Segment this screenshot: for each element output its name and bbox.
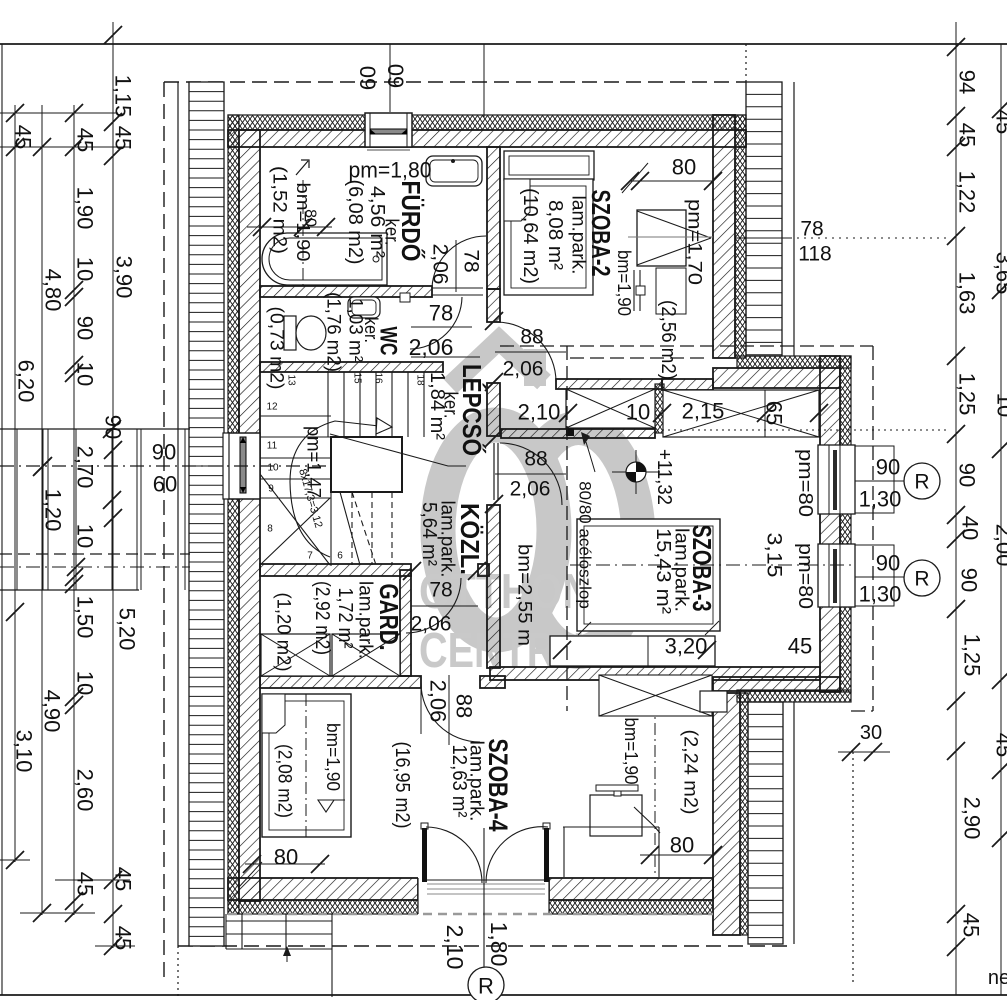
svg-text:80/80 acéloszlop: 80/80 acéloszlop xyxy=(576,481,595,609)
svg-text:15: 15 xyxy=(352,372,363,384)
svg-text:LÉPCSŐ: LÉPCSŐ xyxy=(457,364,487,456)
corridor wall upper seg xyxy=(487,289,500,322)
corridor lower door arc xyxy=(500,443,562,505)
svg-text:5,20: 5,20 xyxy=(115,608,140,651)
svg-text:(1,20 m2): (1,20 m2) xyxy=(273,593,294,672)
right window 1 annotation xyxy=(855,480,904,482)
gard door arc xyxy=(406,578,461,633)
szoba-3 top wall insulation xyxy=(737,356,851,368)
gard closet right xyxy=(332,634,400,676)
szoba-2 bottom thin wall xyxy=(556,379,662,389)
top frame line xyxy=(0,43,1007,45)
svg-text:SZOBA-2: SZOBA-2 xyxy=(586,190,616,277)
svg-text:45: 45 xyxy=(11,125,36,149)
szoba-2 80 dim xyxy=(630,180,713,182)
svg-text:4,80: 4,80 xyxy=(41,269,66,312)
közl bottom wall stub xyxy=(480,676,505,688)
svg-text:bm=2,55 m: bm=2,55 m xyxy=(514,544,535,646)
svg-text:1,03 m²: 1,03 m² xyxy=(345,298,366,362)
terrace door threshold xyxy=(427,884,545,894)
right window 2 annotation xyxy=(855,576,904,578)
terrace door opening xyxy=(418,877,549,915)
corridor closet 1 xyxy=(566,389,655,428)
svg-text:4,90: 4,90 xyxy=(40,690,65,733)
acéloszlop leader xyxy=(586,442,595,472)
svg-text:80: 80 xyxy=(672,155,696,180)
szoba-4 bed axis xyxy=(305,694,307,837)
corridor lower door leaf xyxy=(493,443,495,500)
svg-text:15,43 m²: 15,43 m² xyxy=(652,528,674,614)
left dim line 2 xyxy=(41,105,43,915)
svg-text:ne: ne xyxy=(988,967,1007,989)
svg-text:10: 10 xyxy=(267,463,279,474)
svg-text:2,06: 2,06 xyxy=(409,334,454,360)
svg-text:4,56 m²: 4,56 m² xyxy=(366,186,388,258)
svg-text:45: 45 xyxy=(73,128,98,152)
szoba-2 radiator xyxy=(633,270,635,311)
svg-text:3,15: 3,15 xyxy=(763,533,786,578)
closet 2 divider xyxy=(764,390,766,437)
szoba-3 3,20 dim xyxy=(553,641,571,659)
svg-text:6: 6 xyxy=(337,551,343,562)
svg-text:2,15: 2,15 xyxy=(682,399,725,424)
szoba-4 left 80 dim xyxy=(245,863,325,865)
right lower terrace ladder strip xyxy=(748,702,783,944)
terrace door axis xyxy=(483,828,485,968)
svg-text:9: 9 xyxy=(268,484,274,495)
svg-text:1,22: 1,22 xyxy=(955,171,980,214)
svg-text:2,00: 2,00 xyxy=(992,524,1007,567)
svg-text:80: 80 xyxy=(670,833,694,858)
dashed roof window box xyxy=(599,675,712,716)
svg-text:(2,92 m2): (2,92 m2) xyxy=(311,581,333,655)
svg-text:(6,08 m2): (6,08 m2) xyxy=(344,180,366,265)
eave dashed left vertical xyxy=(163,82,165,983)
svg-text:R: R xyxy=(914,471,929,494)
svg-text:2,06: 2,06 xyxy=(510,478,551,501)
svg-text:5,64 m²: 5,64 m² xyxy=(418,502,440,566)
eave dotted bottom right vertical xyxy=(852,752,854,985)
svg-text:KÖZL.: KÖZL. xyxy=(455,503,485,575)
svg-text:10: 10 xyxy=(73,362,98,386)
wc bottom wall xyxy=(260,362,443,372)
thin wall to right wall xyxy=(662,379,713,390)
svg-text:lam.park.: lam.park. xyxy=(355,581,376,659)
svg-text:90: 90 xyxy=(101,415,126,439)
svg-text:(0,73 m2): (0,73 m2) xyxy=(266,307,287,390)
svg-text:1,72 m²: 1,72 m² xyxy=(334,588,356,649)
svg-text:pm=80: pm=80 xyxy=(794,543,816,609)
left dim connectors xyxy=(0,112,118,114)
svg-text:2,10: 2,10 xyxy=(518,400,561,425)
fürdő bm corner symbol xyxy=(296,160,309,175)
svg-text:45: 45 xyxy=(955,123,980,147)
wall under corridor closet 1 xyxy=(501,429,655,438)
szoba-3 right wall xyxy=(820,356,840,692)
window szoba-3 right lower xyxy=(818,544,894,607)
corridor closet 2 xyxy=(663,390,819,437)
svg-text:18: 18 xyxy=(415,374,426,386)
svg-text:45: 45 xyxy=(959,913,984,937)
svg-text:90: 90 xyxy=(73,316,98,340)
watermark logo xyxy=(438,340,639,652)
svg-text:1,20: 1,20 xyxy=(41,489,66,532)
stairs upper flight treads xyxy=(327,372,329,437)
svg-text:2,06: 2,06 xyxy=(503,358,544,381)
svg-text:90: 90 xyxy=(957,568,982,592)
left wall insulation xyxy=(228,115,239,914)
svg-text:(1,76 m2): (1,76 m2) xyxy=(323,292,344,372)
78/118 reference line xyxy=(735,237,790,239)
svg-text:6,20: 6,20 xyxy=(14,360,39,403)
szoba-2 door arc xyxy=(496,322,556,382)
top wall insulation xyxy=(228,115,746,130)
svg-text:bm=1,90: bm=1,90 xyxy=(614,250,634,316)
szoba-4 bm axis xyxy=(654,701,656,877)
stairs landing void xyxy=(331,437,402,492)
szoba-3 bottom corner insulation xyxy=(737,690,851,702)
svg-text:3,20: 3,20 xyxy=(665,634,708,659)
left dim line 4 xyxy=(112,22,114,948)
dotted corridor line xyxy=(662,429,950,431)
right upper terrace ladder strip xyxy=(746,82,782,356)
svg-text:2,60: 2,60 xyxy=(73,769,98,812)
svg-text:8: 8 xyxy=(267,524,273,535)
wc door arc xyxy=(410,297,462,349)
window left wall xyxy=(223,433,260,499)
svg-text:bm=1,90: bm=1,90 xyxy=(621,718,641,785)
svg-text:1,80: 1,80 xyxy=(486,922,512,967)
szoba-3 bed xyxy=(577,519,720,631)
steel column mark xyxy=(566,428,574,436)
svg-text:78: 78 xyxy=(429,579,452,602)
svg-text:(10,64 m2): (10,64 m2) xyxy=(519,188,541,284)
level mark cross lines xyxy=(612,471,660,473)
stairs label leader xyxy=(330,434,466,466)
svg-text:8,08 m²: 8,08 m² xyxy=(544,200,566,270)
svg-text:2,70: 2,70 xyxy=(73,446,98,489)
svg-text:80: 80 xyxy=(302,209,319,227)
svg-text:90: 90 xyxy=(152,440,176,465)
left frame line xyxy=(1,44,3,995)
svg-text:12,63 m²: 12,63 m² xyxy=(448,745,470,818)
bed corner folds xyxy=(578,622,591,635)
svg-text:78: 78 xyxy=(800,218,823,241)
svg-text:2,10: 2,10 xyxy=(442,925,468,970)
fürdő 80 dim xyxy=(247,226,332,228)
svg-text:78: 78 xyxy=(460,249,483,272)
fürdő sink xyxy=(426,156,482,186)
bottom wall left insulation xyxy=(228,900,418,914)
gard closet left xyxy=(261,634,330,676)
svg-text:40: 40 xyxy=(958,516,983,540)
bottom wall left part xyxy=(228,878,418,900)
svg-text:88: 88 xyxy=(520,326,543,349)
svg-text:3,65: 3,65 xyxy=(992,252,1007,295)
right dim line xyxy=(955,22,957,995)
svg-text:30: 30 xyxy=(860,722,882,744)
svg-text:94: 94 xyxy=(955,70,980,94)
svg-text:45: 45 xyxy=(111,926,136,950)
top wall xyxy=(228,130,746,147)
svg-text:(16,95 m2): (16,95 m2) xyxy=(391,742,413,829)
svg-text:10: 10 xyxy=(626,400,650,425)
fürdő axis dash-dot xyxy=(302,180,304,285)
szoba-3 centre dash-dot xyxy=(570,564,851,566)
svg-text:2,06: 2,06 xyxy=(411,613,452,636)
svg-text:1,30: 1,30 xyxy=(859,582,902,607)
szoba-4 right 80 dim xyxy=(640,854,713,856)
svg-text:R: R xyxy=(914,568,929,591)
svg-text:45: 45 xyxy=(992,733,1007,757)
szoba-4 level symbol xyxy=(318,800,334,812)
svg-text:12: 12 xyxy=(266,402,278,413)
svg-text:pm=1,47: pm=1,47 xyxy=(303,426,324,498)
right lower strip outer line xyxy=(793,702,795,944)
svg-text:10: 10 xyxy=(73,524,98,548)
top dim verticals xyxy=(389,44,391,112)
corridor wall mid seg xyxy=(487,383,500,436)
svg-text:90: 90 xyxy=(876,551,900,576)
svg-text:R: R xyxy=(478,974,494,999)
svg-text:3,90: 3,90 xyxy=(112,256,137,299)
svg-text:10: 10 xyxy=(73,671,98,695)
eave dotted top right vertical xyxy=(745,44,747,82)
left roof strip outer line xyxy=(177,82,179,946)
szoba-4 bed xyxy=(262,694,351,837)
window top wall xyxy=(365,113,412,150)
szoba-3 bottom wall xyxy=(490,667,820,680)
fürdő door threshold xyxy=(432,287,483,289)
svg-text:60: 60 xyxy=(153,472,177,497)
szoba-2 bed xyxy=(504,179,593,295)
svg-text:1,63: 1,63 xyxy=(955,272,980,315)
corridor wall lower seg xyxy=(487,505,500,668)
svg-text:45: 45 xyxy=(788,634,812,659)
gard right wall xyxy=(400,570,411,676)
svg-text:1,25: 1,25 xyxy=(955,373,980,416)
svg-text:88: 88 xyxy=(524,448,547,471)
lower right wall insulation xyxy=(740,693,748,935)
svg-text:45: 45 xyxy=(111,867,136,891)
bottom frame line xyxy=(0,994,1007,996)
svg-text:2,06: 2,06 xyxy=(429,244,452,285)
svg-text:(2,08 m2): (2,08 m2) xyxy=(274,744,295,818)
fürdő bottom wall xyxy=(260,286,432,297)
eave dotted bottom left vertical xyxy=(177,946,179,996)
wc toilet xyxy=(284,316,296,350)
svg-text:1,84 m²: 1,84 m² xyxy=(426,372,448,440)
svg-text:1,25: 1,25 xyxy=(960,634,985,677)
svg-text:7: 7 xyxy=(307,551,313,562)
svg-text:1,30: 1,30 xyxy=(859,487,902,512)
terrace door swing arcs xyxy=(426,827,482,883)
szoba-2 right wall xyxy=(713,115,735,358)
porch outline xyxy=(0,428,190,430)
svg-text:GARD.: GARD. xyxy=(374,584,404,651)
svg-text:pm=80: pm=80 xyxy=(794,449,816,517)
svg-text:(1,52 m2): (1,52 m2) xyxy=(269,166,290,254)
svg-text:78: 78 xyxy=(429,301,453,326)
svg-text:60: 60 xyxy=(384,64,409,88)
svg-text:+11,32: +11,32 xyxy=(653,449,675,505)
terrace door left leaf xyxy=(421,823,428,829)
svg-text:1,15: 1,15 xyxy=(111,75,136,118)
szoba-3 bottom corner wall xyxy=(713,677,840,691)
stairs left flight treads xyxy=(260,415,331,417)
bottom wall szoba-4 part xyxy=(549,878,713,900)
szoba-3 bench row xyxy=(550,636,715,666)
svg-text:pm=1,70: pm=1,70 xyxy=(684,199,705,285)
svg-text:80: 80 xyxy=(274,845,298,870)
terrace door right leaf xyxy=(543,823,550,829)
svg-text:(2,24 m2): (2,24 m2) xyxy=(680,730,701,815)
szoba-4 door arc xyxy=(421,683,480,742)
svg-text:10: 10 xyxy=(993,393,1007,417)
right upper strip outer line xyxy=(793,82,795,356)
steps arrow xyxy=(286,950,288,962)
window szoba-3 right upper xyxy=(818,445,894,514)
svg-text:11: 11 xyxy=(267,441,278,452)
svg-text:60: 60 xyxy=(356,66,381,90)
level mark +11,32 xyxy=(626,462,646,482)
svg-text:10: 10 xyxy=(73,257,98,281)
eave dashed top horizontal xyxy=(164,81,746,83)
svg-text:88: 88 xyxy=(452,694,477,718)
wc sink xyxy=(348,297,380,318)
fürdő door arc xyxy=(432,236,486,288)
left dim line 1 xyxy=(14,105,16,862)
eave dashed bottom horizontal xyxy=(178,945,794,947)
stairs bottom wall xyxy=(260,564,411,576)
far right dim line xyxy=(1000,44,1002,995)
stairs bottom wall stub xyxy=(478,564,489,576)
svg-text:(2,56 m2): (2,56 m2) xyxy=(657,300,679,380)
svg-text:lam.park.: lam.park. xyxy=(568,196,589,275)
bottom wall szoba-4 insulation xyxy=(549,900,713,914)
svg-text:1,90: 1,90 xyxy=(73,187,98,230)
lower right wall xyxy=(713,693,740,935)
svg-text:SZOBA-4: SZOBA-4 xyxy=(483,739,513,832)
szoba-4 desk xyxy=(590,795,642,836)
dashed box around szoba-3 xyxy=(566,346,568,711)
flue box xyxy=(700,691,727,712)
svg-text:3,10: 3,10 xyxy=(12,730,37,773)
svg-text:90: 90 xyxy=(876,455,900,480)
bottom R circle xyxy=(468,967,504,1000)
left wall xyxy=(239,130,260,901)
svg-text:2,06: 2,06 xyxy=(426,680,451,723)
szoba-3 right wall insulation xyxy=(840,356,851,692)
svg-text:90: 90 xyxy=(955,463,980,487)
stairs walk line xyxy=(290,421,379,557)
left roof ladder strip xyxy=(189,82,224,946)
szoba-2 right wall insulation xyxy=(735,115,746,358)
exterior steps xyxy=(226,920,332,922)
left dim line 3 xyxy=(73,105,75,915)
wc door jamb xyxy=(400,293,410,302)
steel pier xyxy=(655,384,664,433)
svg-text:bm=1,90: bm=1,90 xyxy=(323,723,343,791)
szoba-2 roof window symbol xyxy=(637,210,686,266)
stairs under-closet X xyxy=(260,474,330,565)
szoba-3 top wall xyxy=(713,368,840,388)
fürdő right wall xyxy=(487,147,500,289)
svg-text:16: 16 xyxy=(373,372,384,384)
svg-text:45: 45 xyxy=(992,110,1007,134)
szoba-2 wardrobe xyxy=(504,151,594,180)
svg-text:45: 45 xyxy=(111,126,136,150)
svg-text:45: 45 xyxy=(73,872,98,896)
svg-text:1,50: 1,50 xyxy=(73,596,98,639)
svg-text:2,90: 2,90 xyxy=(960,797,985,840)
stairs lower flight dashed xyxy=(351,492,353,565)
svg-text:118: 118 xyxy=(798,243,831,266)
bathtub xyxy=(262,233,387,285)
gard bottom wall xyxy=(260,676,421,688)
